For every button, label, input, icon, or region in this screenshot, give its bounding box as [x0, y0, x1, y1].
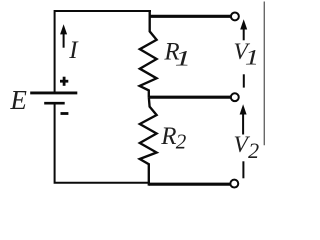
- wire: V2 reference tick (short line above terminal 3): [242, 161, 244, 178]
- svg-text:1: 1: [175, 46, 191, 71]
- svg-text:E: E: [9, 85, 27, 115]
- svg-text:R: R: [160, 123, 176, 150]
- svg-text:2: 2: [176, 130, 187, 154]
- page rule (gray vertical line at right edge): [263, 2, 265, 146]
- svg-text:2: 2: [248, 138, 259, 163]
- battery polarity - sign: [61, 112, 69, 115]
- voltage arrow V2 (up arrow below terminal 2): [240, 104, 247, 134]
- wire: thick bottom lead (node B to terminal 3): [149, 183, 230, 186]
- voltage arrow V1 (up arrow below terminal 1): [240, 19, 247, 40]
- svg-text:1: 1: [245, 45, 259, 70]
- wire: thick middle lead (R1-R2 junction to terminal 2): [149, 96, 231, 99]
- terminal 2 (middle output): [231, 93, 239, 101]
- battery polarity + sign: [60, 77, 68, 86]
- resistor R1 (zigzag with top lead from node A): [140, 10, 157, 97]
- battery E: long positive plate: [30, 91, 77, 94]
- current arrow I: [60, 24, 67, 48]
- battery E: short negative plate: [44, 102, 64, 105]
- label R1: [163, 39, 191, 72]
- terminal 3 (bottom output, V2-): [230, 180, 238, 188]
- label V1: [234, 39, 260, 70]
- label V2: [234, 132, 260, 163]
- wire: thick top lead (node A to terminal 1): [150, 15, 232, 18]
- wire: left vertical lower + bottom horizontal (E- to node B): [55, 104, 150, 183]
- wire: V1 reference tick (short line above terminal 2): [243, 74, 245, 87]
- wire: top horizontal + left vertical upper (E+ to node A): [55, 11, 151, 92]
- terminal 1 (top output, V1+): [231, 12, 239, 20]
- label R2: [160, 123, 187, 154]
- resistor R2 (zigzag between node mid and node B): [140, 97, 157, 185]
